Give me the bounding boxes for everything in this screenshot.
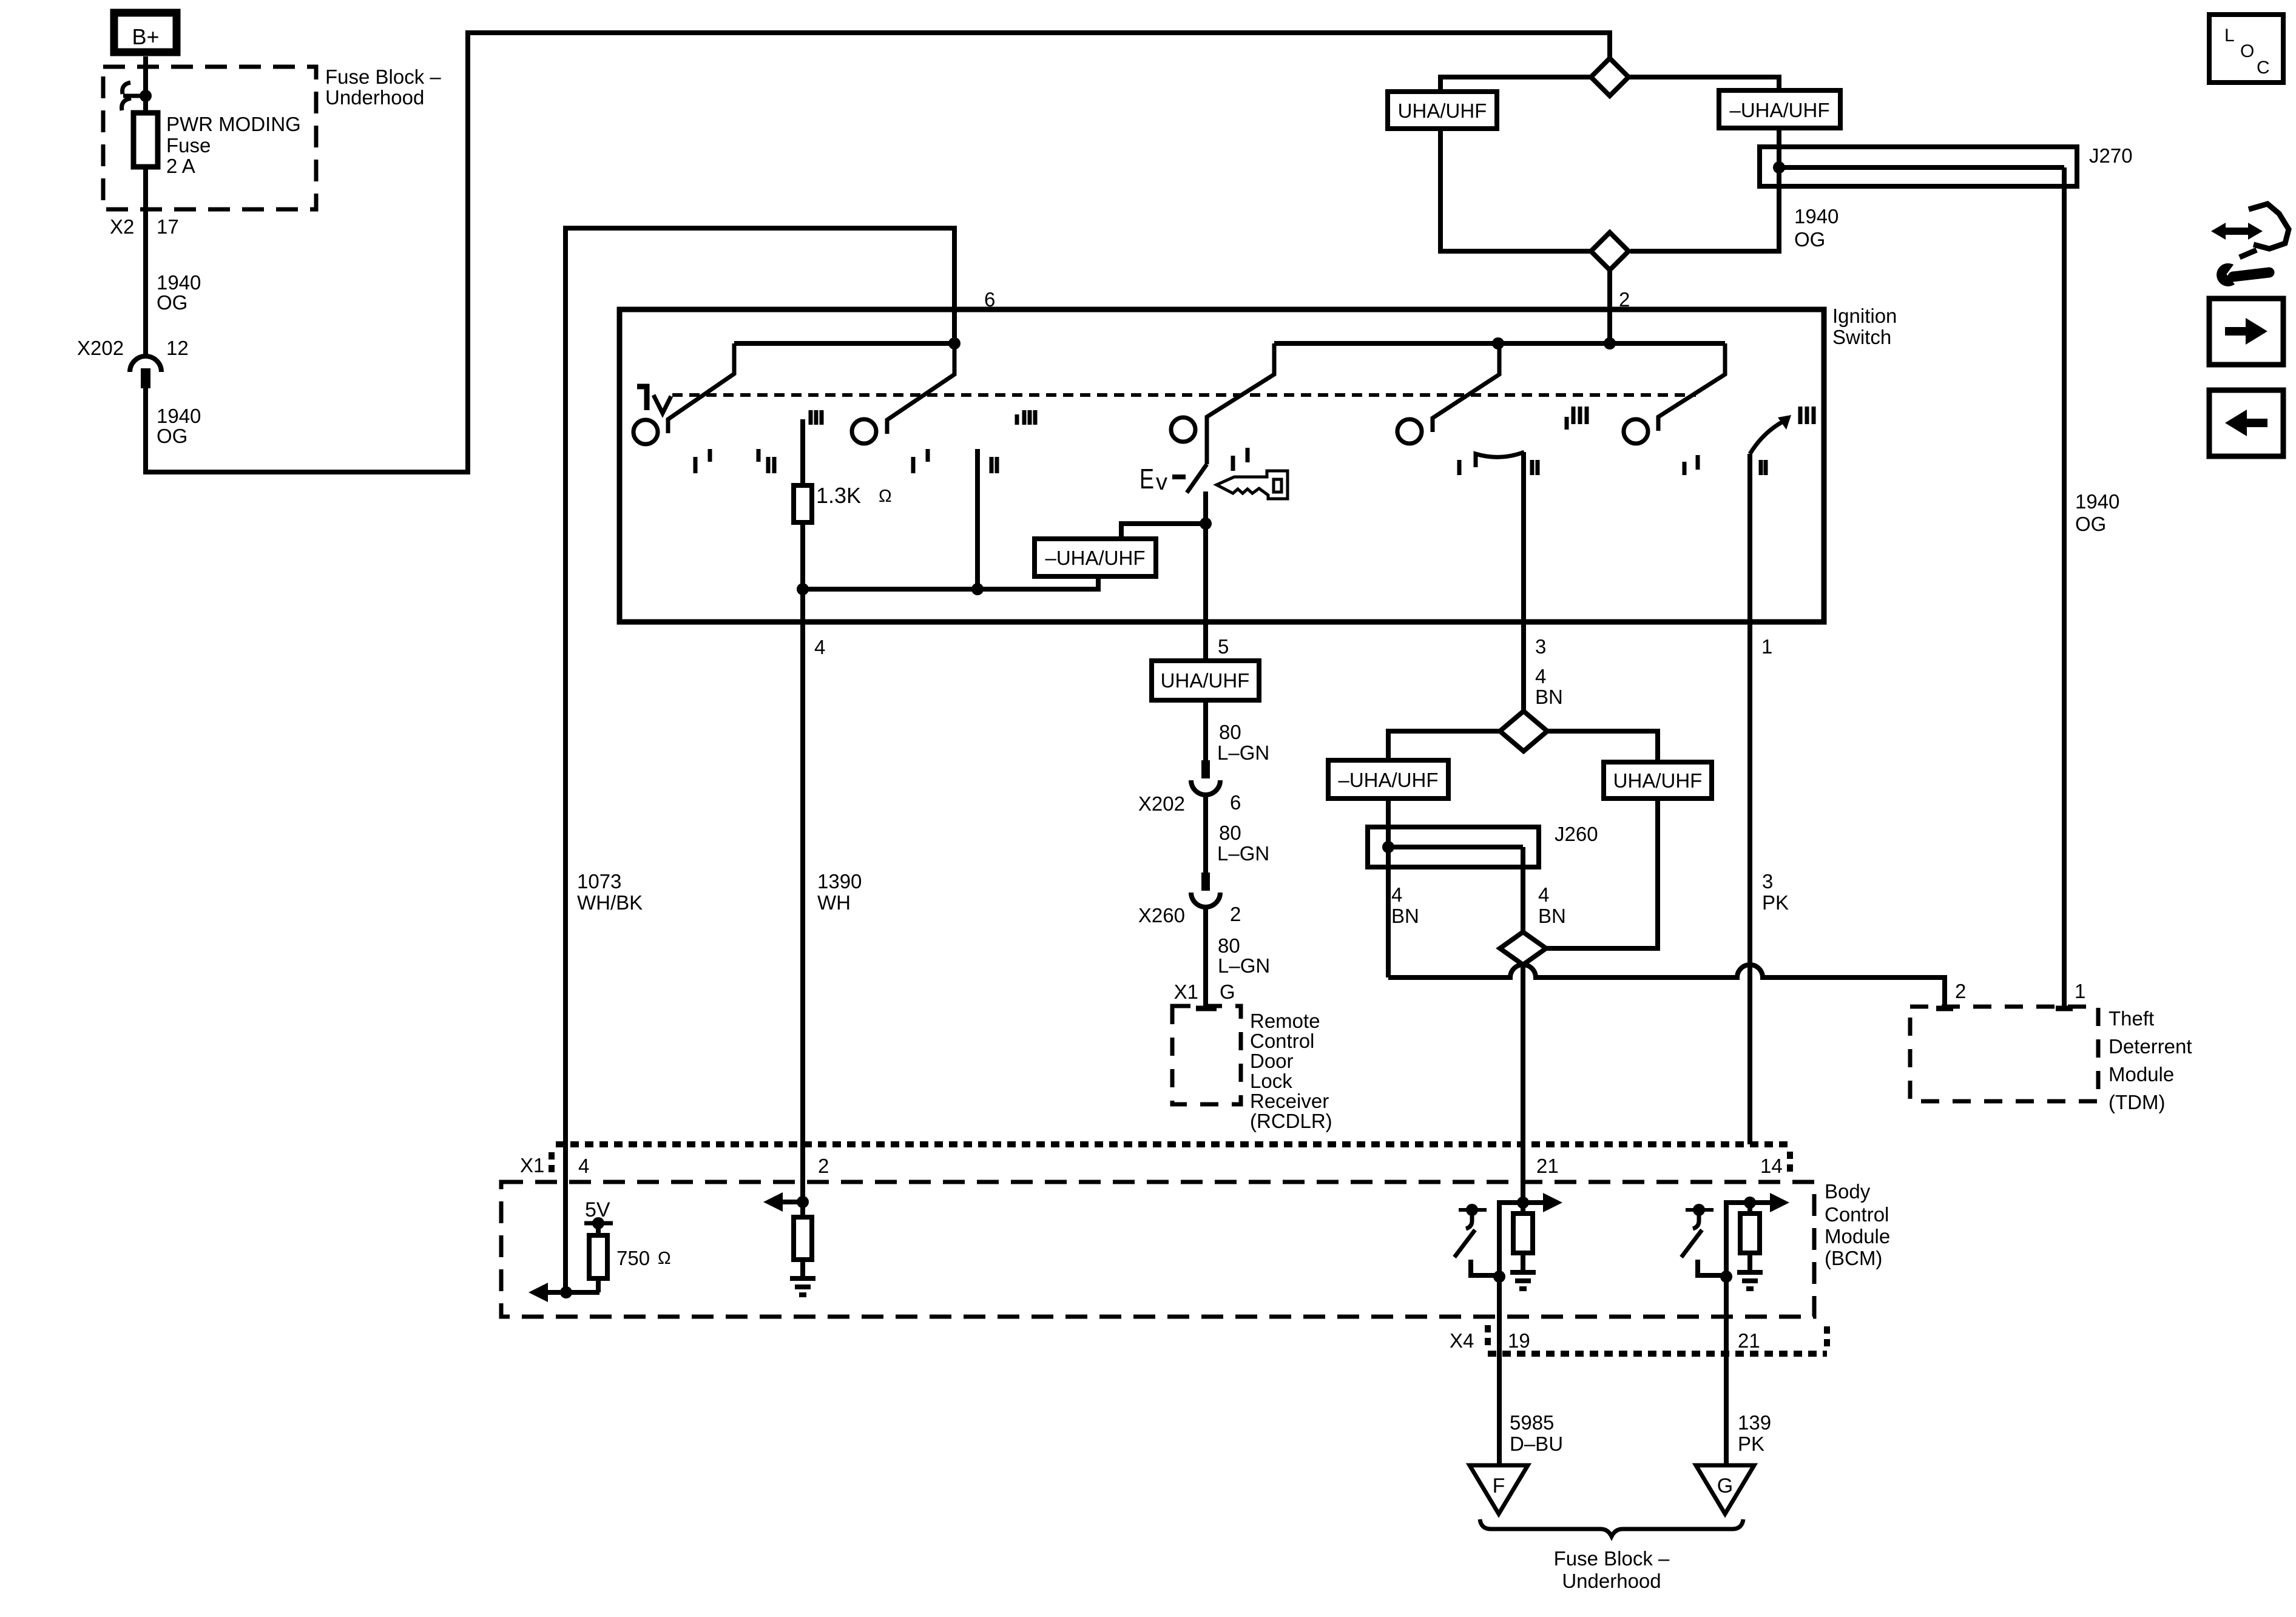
wire S4 to BCM pin 21	[1521, 965, 1525, 1203]
svg-text:PK: PK	[1762, 891, 1789, 914]
wire B+ down to fuse	[143, 56, 148, 113]
junction dot pin2 entry	[1604, 337, 1616, 349]
wire ignition pin 1 to BCM pin 14	[1747, 454, 1752, 1144]
junction dot in J270	[1773, 161, 1785, 174]
ignition internal bottom bus	[803, 576, 1098, 589]
body control module BCM dashed box	[501, 1182, 1814, 1317]
RCDLR pin cap	[1196, 1006, 1217, 1011]
wafer2 position II marks	[990, 457, 994, 473]
wire S3 to UHA/UHF (mid)	[1547, 731, 1658, 762]
wire key switch to pin 5	[1203, 491, 1208, 661]
svg-text:PK: PK	[1738, 1433, 1764, 1455]
connector box -UHA/UHF (top)	[1719, 90, 1840, 128]
wafer2 contact circle	[852, 419, 876, 444]
wire fuse to X202	[143, 167, 148, 356]
svg-text:1: 1	[1761, 635, 1772, 658]
key switch break contact	[1187, 464, 1207, 493]
TDM pin 1 cap	[2056, 1006, 2073, 1011]
junction dot bus right	[971, 583, 984, 595]
svg-text:(BCM): (BCM)	[1825, 1247, 1882, 1269]
svg-text:Ignition: Ignition	[1832, 305, 1897, 327]
wafer3 position marks	[1231, 456, 1235, 471]
wire ignition pin4 to BCM pin2 and ground	[800, 589, 805, 1278]
wafer3 lever	[1207, 343, 1274, 464]
theft deterrent module TDM dashed box	[1910, 1007, 2098, 1101]
BCM pin14 signal line + arrow	[1750, 1200, 1770, 1205]
svg-text:BN: BN	[1535, 686, 1563, 708]
svg-text:L–GN: L–GN	[1217, 741, 1269, 764]
ignition switch box	[620, 309, 1824, 622]
svg-text:D–BU: D–BU	[1510, 1433, 1563, 1455]
BCM pin2 signal line + arrow	[783, 1200, 803, 1204]
internal bus line B	[1274, 341, 1725, 346]
splice diamond S3	[1500, 711, 1547, 751]
svg-text:1940: 1940	[157, 271, 201, 294]
svg-text:(RCDLR): (RCDLR)	[1250, 1110, 1332, 1132]
svg-text:OG: OG	[1794, 228, 1825, 251]
svg-text:2: 2	[818, 1155, 829, 1177]
inline connector X260 pin 2	[1201, 873, 1210, 891]
splice diamond S1	[1591, 58, 1629, 96]
svg-text:UHA/UHF: UHA/UHF	[1613, 769, 1703, 792]
svg-text:G: G	[1717, 1474, 1733, 1497]
wire 5V to resistor	[596, 1223, 601, 1235]
wire waferK to pin 3 / diamond S3	[1521, 452, 1526, 711]
BCM pin21 signal line + arrow	[1523, 1200, 1543, 1205]
junction dot wafer4 lever	[1492, 337, 1504, 349]
svg-text:Ω: Ω	[658, 1249, 671, 1268]
wafer2 position I marks	[911, 457, 916, 473]
splice diamond S4	[1500, 932, 1546, 965]
key switch dash	[1172, 474, 1186, 479]
svg-text:Door: Door	[1250, 1050, 1294, 1072]
svg-text:Remote: Remote	[1250, 1010, 1320, 1032]
LOC navigation box	[2209, 15, 2283, 83]
svg-text:139: 139	[1738, 1411, 1771, 1434]
svg-text:Fuse: Fuse	[166, 134, 211, 157]
svg-text:J270: J270	[2089, 144, 2133, 167]
TDM pin 2 cap	[1936, 1006, 1953, 1011]
junction dot bus left	[797, 583, 809, 595]
junction dot BCM pin14	[1744, 1197, 1756, 1209]
svg-text:X202: X202	[1138, 792, 1185, 815]
J260 internal wire	[1388, 845, 1523, 849]
waferK position I mark	[1457, 460, 1462, 475]
connector box UHA/UHF (mid)	[1604, 762, 1712, 798]
junction dot BCM pin4	[560, 1286, 572, 1298]
wire J260 to diamond S4	[1521, 847, 1525, 932]
svg-text:Underhood: Underhood	[1562, 1570, 1661, 1592]
BCM pin21 driver switch	[1459, 1208, 1487, 1212]
svg-text:L: L	[2224, 25, 2235, 46]
svg-text:1073: 1073	[577, 870, 621, 893]
svg-text:2: 2	[1230, 903, 1241, 925]
right arrow navigation box	[2209, 299, 2283, 365]
svg-text:5985: 5985	[1510, 1411, 1554, 1434]
nav icon hook	[2249, 204, 2289, 249]
svg-text:L–GN: L–GN	[1218, 954, 1270, 977]
svg-text:–UHA/UHF: –UHA/UHF	[1729, 99, 1829, 121]
wire BCM to X4 pin 21	[1724, 1277, 1729, 1465]
svg-text:(TDM): (TDM)	[2109, 1091, 2165, 1113]
svg-text:UHA/UHF: UHA/UHF	[1398, 100, 1487, 122]
svg-text:4: 4	[1535, 665, 1546, 687]
svg-text:E: E	[1140, 463, 1154, 495]
switch symbol in fuse block	[123, 83, 130, 94]
svg-text:Fuse Block –: Fuse Block –	[325, 66, 441, 88]
svg-text:1940: 1940	[157, 405, 201, 427]
waferK arc contact	[1476, 452, 1524, 467]
svg-text:80: 80	[1219, 721, 1241, 743]
wire S3 to -UHA/UHF (mid)	[1388, 731, 1500, 760]
BCM pin4 signal line + arrow	[547, 1290, 599, 1295]
battery terminal B+	[114, 13, 177, 52]
wire UHA/UHF to X202	[1203, 700, 1208, 762]
svg-text:Deterrent: Deterrent	[2109, 1035, 2192, 1058]
wire wafer2 II to bus	[975, 449, 980, 589]
wire X260 to RCDLR	[1203, 909, 1208, 1008]
svg-text:–UHA/UHF: –UHA/UHF	[1338, 769, 1438, 791]
wafer6 curved lever	[1750, 421, 1784, 454]
svg-text:80: 80	[1219, 822, 1241, 844]
fuse block underhood dashed box	[103, 67, 316, 209]
wafer5 position III marks	[1565, 417, 1569, 430]
wafer2 position III marks	[1015, 414, 1019, 425]
svg-text:Module: Module	[1825, 1225, 1890, 1247]
svg-text:v: v	[1156, 470, 1167, 495]
svg-text:3: 3	[1762, 870, 1773, 893]
wafer6 position III marks	[1798, 407, 1803, 424]
brace fuse block	[1480, 1519, 1743, 1536]
wafer5 lever	[1658, 343, 1725, 431]
svg-text:UHA/UHF: UHA/UHF	[1161, 669, 1250, 692]
svg-text:X1: X1	[1174, 981, 1198, 1003]
fuse block terminal F	[1470, 1465, 1528, 1514]
wafer6 position II marks	[1759, 460, 1763, 475]
svg-text:Receiver: Receiver	[1250, 1090, 1329, 1112]
svg-text:OG: OG	[157, 425, 187, 447]
resistor BCM pin21	[1513, 1214, 1533, 1253]
svg-text:PWR MODING: PWR MODING	[166, 113, 301, 135]
svg-text:2 A: 2 A	[166, 155, 195, 177]
svg-text:Control: Control	[1825, 1203, 1889, 1226]
junction dot BCM pin2	[797, 1196, 809, 1208]
wire S1 to UHA/UHF	[1440, 77, 1591, 92]
svg-text:Module: Module	[2109, 1063, 2174, 1085]
wire BCM pin21 to ground	[1521, 1203, 1525, 1272]
svg-text:Body: Body	[1825, 1180, 1871, 1203]
waferK position II marks	[1530, 460, 1535, 475]
svg-text:1: 1	[2075, 980, 2085, 1002]
connector box -UHA/UHF (mid)	[1328, 760, 1448, 798]
svg-text:X1: X1	[520, 1154, 544, 1176]
wire bus to TDM pin 2 (with hops)	[1388, 965, 1945, 1008]
connector X4 dotted line	[1488, 1351, 1827, 1357]
connector box UHA/UHF (pin5)	[1152, 661, 1259, 700]
wire BCM pin14 to ground	[1747, 1203, 1752, 1272]
svg-text:4: 4	[1391, 883, 1402, 906]
svg-text:750: 750	[616, 1247, 650, 1269]
wire UHA/UHF down to S2	[1440, 129, 1591, 251]
svg-text:4: 4	[578, 1155, 589, 1177]
mechanical coupling dashed line	[672, 393, 1696, 397]
nav icon double arrow	[2222, 228, 2252, 235]
wire X202 to X260	[1203, 797, 1208, 874]
svg-text:X2: X2	[110, 215, 134, 238]
wire S1 to -UHA/UHF	[1629, 77, 1779, 90]
inline connector X202 pin 6	[1201, 760, 1210, 778]
svg-text:Fuse Block –: Fuse Block –	[1554, 1547, 1670, 1570]
RCDLR dashed box	[1172, 1006, 1241, 1104]
svg-text:C: C	[2257, 58, 2270, 78]
junction dot in J260	[1382, 841, 1394, 853]
svg-text:5: 5	[1218, 635, 1229, 658]
svg-text:21: 21	[1738, 1329, 1760, 1352]
svg-text:X202: X202	[77, 337, 124, 359]
junction dot fuse switch	[140, 90, 152, 102]
wafer3 contact circle	[1171, 417, 1195, 442]
resistor BCM pin2	[794, 1217, 812, 1260]
svg-text:WH/BK: WH/BK	[577, 891, 643, 914]
park lock symbol wafer1	[637, 384, 649, 390]
wire ignition pin 6 to BCM pin 4	[566, 228, 954, 1292]
wafer4 contact circle	[1397, 419, 1422, 444]
svg-text:F: F	[1493, 1474, 1505, 1497]
wire -UHA/UHF down through J270 to S2	[1630, 128, 1779, 251]
junction dot pin6/lever	[948, 337, 961, 349]
wafer1 position I marks	[694, 457, 698, 473]
svg-text:80: 80	[1218, 934, 1240, 957]
svg-text:WH: WH	[817, 891, 851, 914]
svg-text:J260: J260	[1555, 823, 1598, 845]
wire resistor 750 to signal line	[596, 1278, 601, 1292]
BCM 5V supply bar	[584, 1221, 613, 1226]
svg-text:OG: OG	[157, 291, 187, 314]
BCM pin14 driver switch	[1686, 1208, 1714, 1212]
wire pin21 switch riser	[1499, 1203, 1523, 1277]
ground BCM pin2	[790, 1276, 815, 1281]
junction dot BCM pin21	[1517, 1197, 1529, 1209]
inline connector X202 pin 12	[130, 356, 161, 372]
wafer2 lever	[887, 343, 954, 434]
svg-text:Switch: Switch	[1832, 326, 1891, 348]
svg-text:21: 21	[1536, 1155, 1559, 1177]
splice pack J260	[1368, 827, 1539, 867]
ground BCM pin21	[1510, 1270, 1536, 1275]
splice diamond S2	[1591, 232, 1629, 270]
tab -UHA/UHF to key wire	[1121, 524, 1206, 539]
svg-text:1.3K: 1.3K	[816, 483, 861, 508]
fuse PWR MODING 2A	[133, 113, 158, 167]
svg-text:1390: 1390	[817, 870, 862, 893]
wire J270 to TDM pin 1	[2062, 167, 2067, 1007]
connector box -UHA/UHF (in ignition)	[1035, 539, 1156, 576]
svg-text:4: 4	[814, 636, 825, 658]
svg-text:3: 3	[1535, 635, 1546, 658]
svg-text:–UHA/UHF: –UHA/UHF	[1045, 547, 1145, 569]
svg-text:BN: BN	[1538, 905, 1566, 927]
svg-text:12: 12	[166, 337, 189, 359]
svg-text:B+: B+	[132, 24, 159, 49]
splice pack J270	[1760, 147, 2077, 186]
wafer1 position III marks	[809, 410, 813, 425]
svg-text:2: 2	[1955, 980, 1966, 1002]
wire B+ feed to splice diamond	[146, 33, 1610, 472]
svg-text:14: 14	[1760, 1155, 1783, 1177]
svg-text:L–GN: L–GN	[1217, 842, 1269, 865]
svg-text:Theft: Theft	[2109, 1007, 2154, 1030]
resistor BCM pin14	[1740, 1214, 1760, 1253]
svg-text:5V: 5V	[585, 1198, 610, 1221]
wafer1 position II marks	[757, 449, 761, 462]
svg-text:X4: X4	[1450, 1329, 1474, 1352]
fuse block terminal G	[1696, 1465, 1754, 1514]
wire BCM to X4 pin 19	[1497, 1277, 1502, 1465]
wire wafer1 III to resistor	[800, 419, 805, 589]
connector X1 dotted line	[556, 1141, 1793, 1147]
internal bus line A	[734, 341, 954, 346]
svg-text:O: O	[2240, 41, 2254, 61]
nav icon wrench	[2233, 272, 2269, 277]
svg-text:19: 19	[1508, 1329, 1530, 1352]
junction dot pin14 switch out	[1720, 1271, 1732, 1283]
svg-text:G: G	[1220, 981, 1235, 1003]
svg-text:Control: Control	[1250, 1030, 1314, 1052]
wafer1 contact circle	[633, 420, 658, 444]
junction dot key wire	[1200, 518, 1212, 530]
left arrow navigation box	[2209, 390, 2283, 456]
connector box UHA/UHF (top)	[1388, 92, 1497, 129]
svg-text:OG: OG	[2075, 513, 2106, 535]
wafer5 position I marks	[1683, 462, 1687, 475]
svg-text:17: 17	[157, 215, 179, 238]
wire S2 to ignition pin 2	[1607, 270, 1612, 343]
svg-text:Underhood: Underhood	[325, 86, 424, 109]
svg-text:6: 6	[1230, 791, 1241, 814]
resistor 1.3K ohm	[794, 485, 812, 522]
wire UHA/UHF (mid) to S4	[1546, 798, 1658, 948]
svg-text:Lock: Lock	[1250, 1070, 1292, 1092]
key icon	[1217, 471, 1288, 499]
wire -UHA/UHF through J260 to TDM bus	[1386, 798, 1391, 977]
svg-text:4: 4	[1538, 883, 1549, 906]
J270 internal wire	[1779, 165, 2064, 170]
svg-text:1940: 1940	[1794, 205, 1838, 228]
svg-text:1940: 1940	[2075, 490, 2119, 513]
wafer1 lever	[668, 343, 734, 433]
junction dot pin21 switch out	[1493, 1271, 1505, 1283]
svg-text:BN: BN	[1391, 905, 1419, 927]
wafer5 contact circle	[1624, 419, 1648, 444]
svg-text:X260: X260	[1138, 904, 1185, 927]
resistor 750 ohm	[589, 1235, 607, 1278]
wafer4 lever	[1433, 343, 1499, 432]
ground BCM pin14	[1737, 1270, 1763, 1275]
svg-text:6: 6	[984, 288, 995, 311]
svg-text:Ω: Ω	[879, 487, 892, 506]
wire pin14 switch riser	[1726, 1203, 1750, 1277]
